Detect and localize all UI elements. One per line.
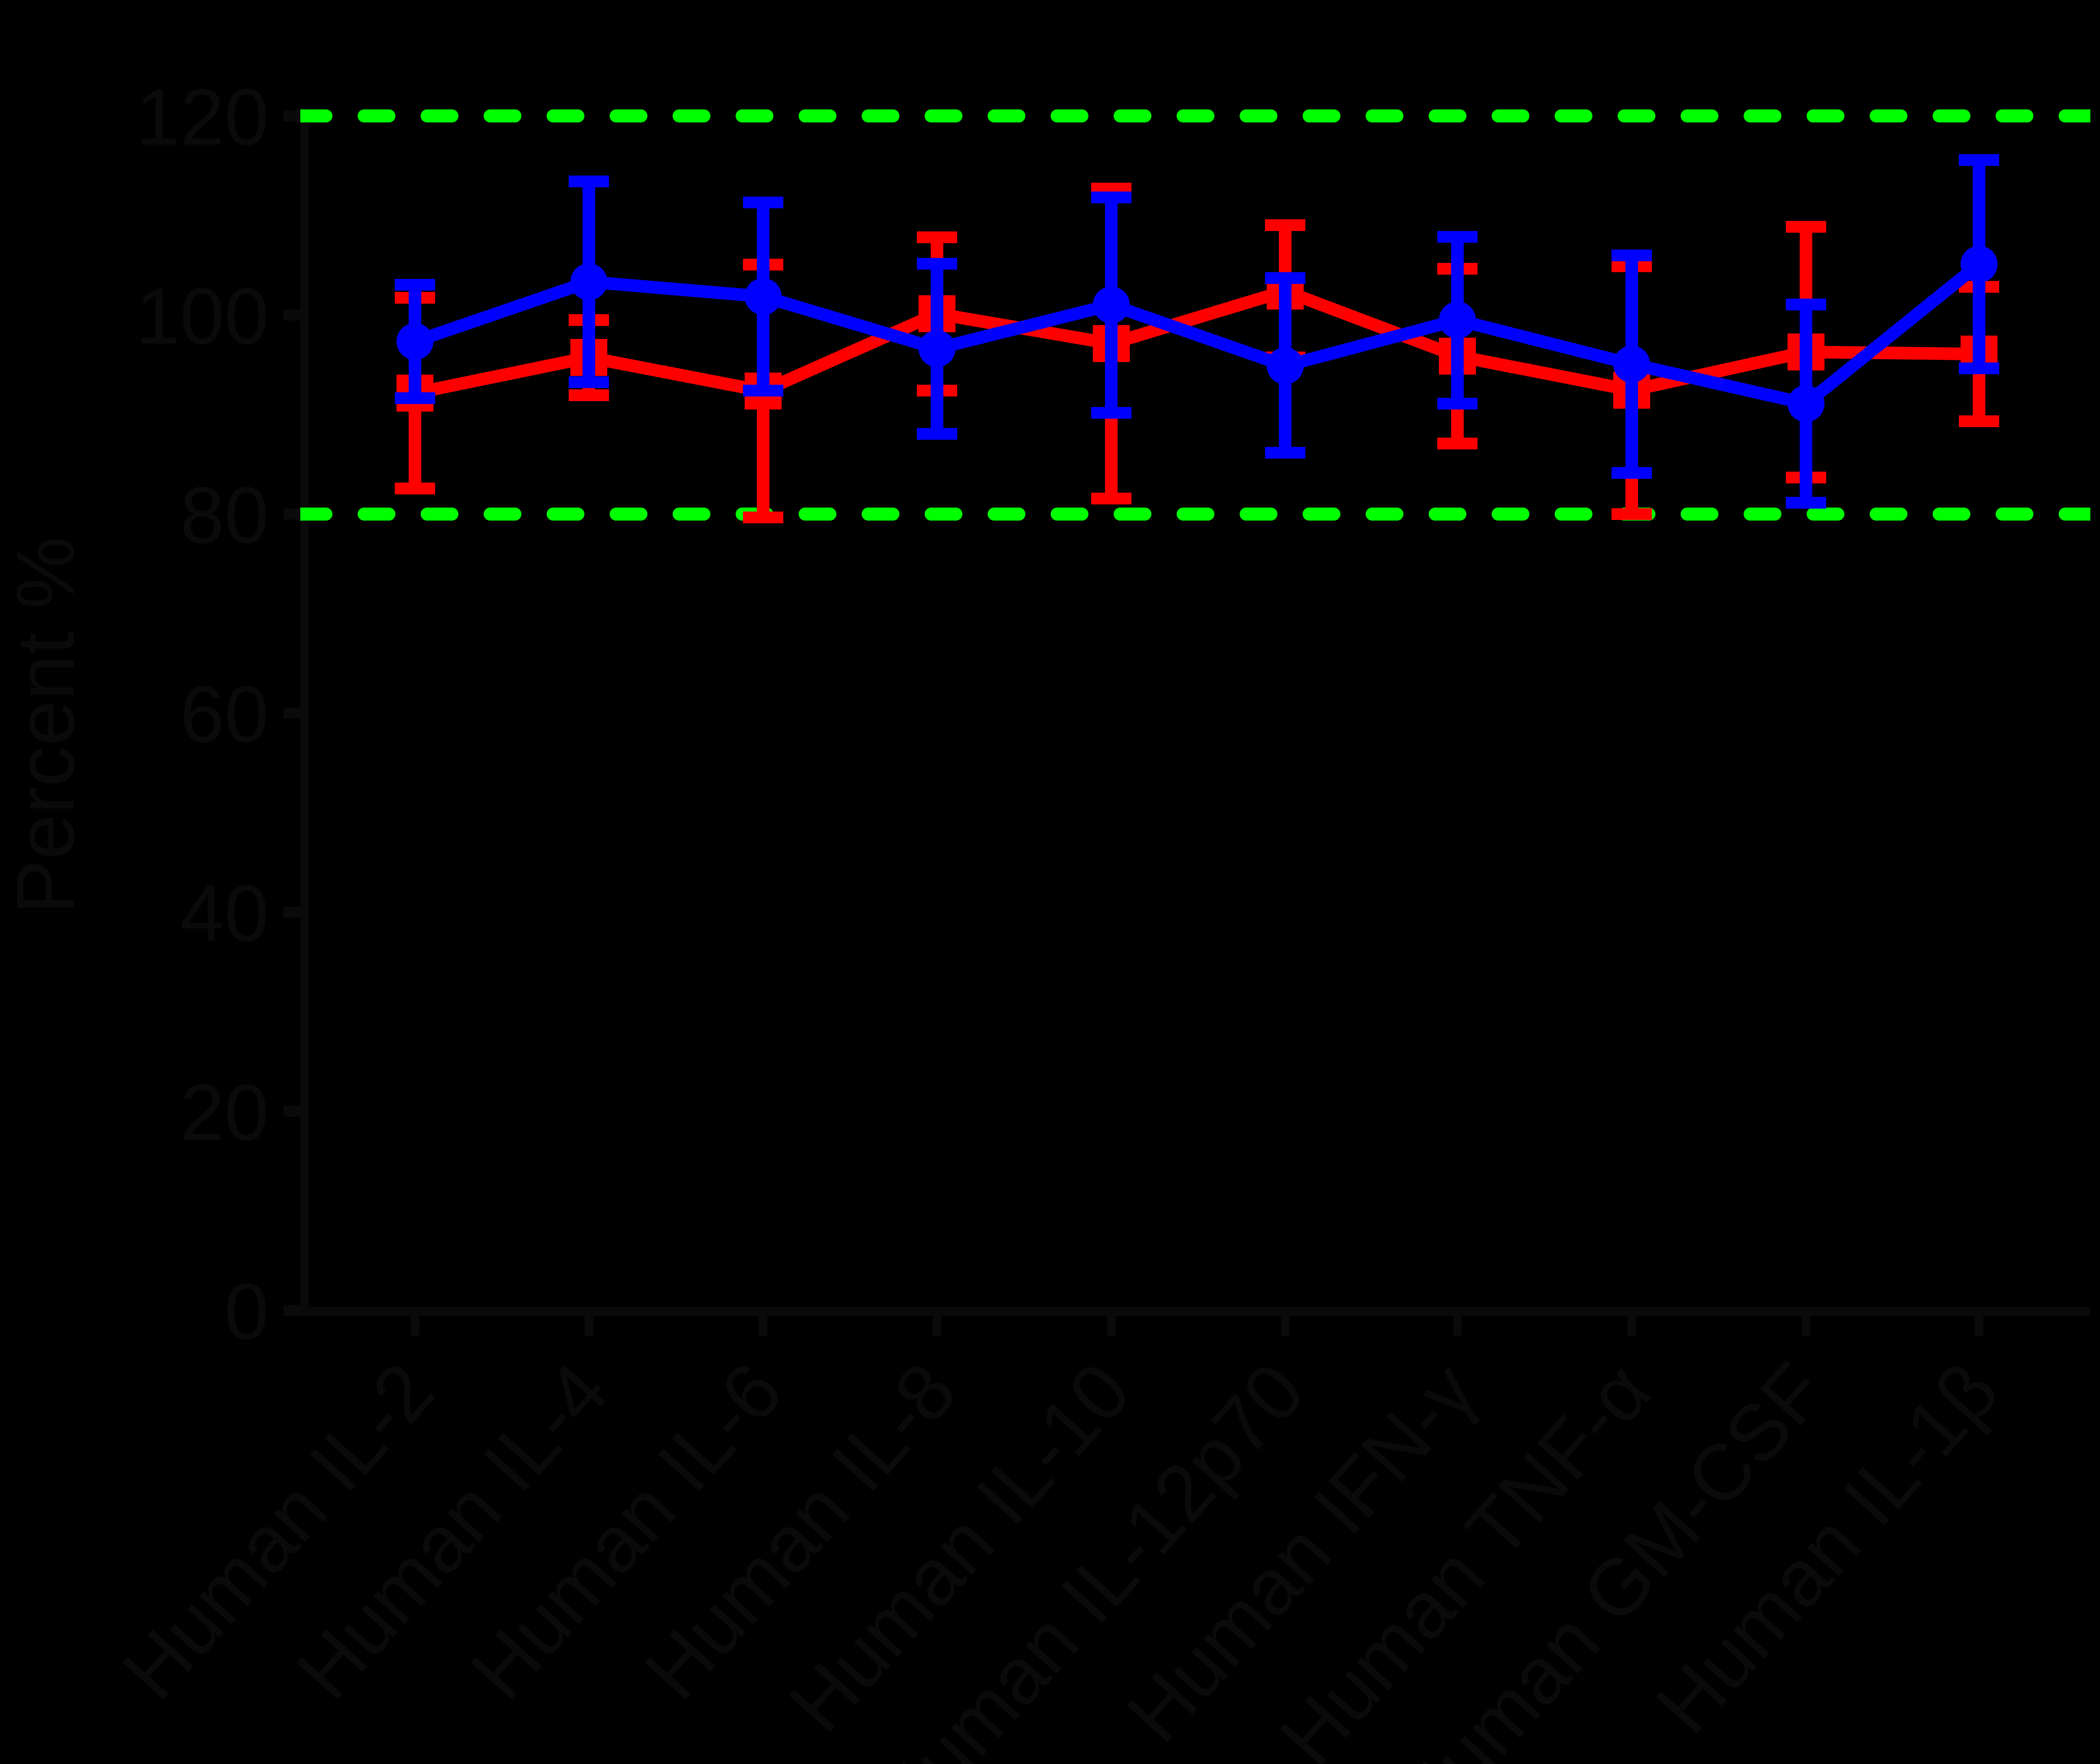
svg-text:40: 40	[180, 869, 269, 958]
x ticks	[411, 1316, 419, 1336]
blue circle markers	[396, 323, 433, 360]
svg-text:80: 80	[180, 471, 269, 560]
svg-text:20: 20	[180, 1068, 269, 1157]
svg-text:120: 120	[136, 73, 269, 162]
blue series polyline	[415, 264, 1979, 404]
svg-text:Percent %: Percent %	[0, 536, 91, 914]
svg-text:60: 60	[180, 670, 269, 759]
upper limit line (120%) green dashed	[301, 110, 2090, 123]
lower limit line (80%) green dashed	[301, 508, 2090, 521]
red series: Recovery error bars	[409, 298, 421, 488]
blue series: Linearity error bars	[409, 285, 421, 398]
y ticks	[283, 110, 304, 121]
svg-text:0: 0	[224, 1267, 269, 1356]
y axis spine	[300, 108, 309, 1316]
x axis line	[300, 1307, 2090, 1316]
red square markers	[396, 375, 433, 412]
red series polyline	[415, 291, 1979, 393]
svg-text:100: 100	[136, 272, 269, 361]
